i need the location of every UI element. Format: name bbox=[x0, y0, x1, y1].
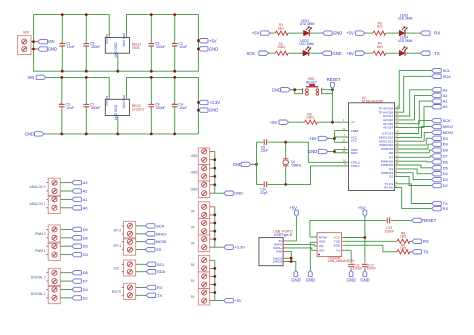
wire C6 vertical bbox=[150, 15, 152, 72]
capacitor C3 bbox=[59, 104, 65, 106]
wire C8 vertical bbox=[150, 77, 152, 133]
svg-text:1kΩ: 1kΩ bbox=[400, 235, 406, 239]
svg-text:+: + bbox=[60, 40, 62, 44]
capacitor C12 100nF bbox=[362, 264, 368, 266]
svg-text:GND GND: GND GND bbox=[114, 104, 118, 120]
svg-text:GND: GND bbox=[25, 132, 34, 137]
pin 7 VCC bbox=[334, 136, 348, 138]
wire C7 vertical bbox=[85, 77, 87, 133]
svg-text:10kΩ: 10kΩ bbox=[277, 45, 285, 49]
svg-text:+5V: +5V bbox=[209, 38, 217, 43]
LED2 LED 3MM bbox=[303, 46, 311, 56]
wire C5 vertical bbox=[85, 15, 87, 72]
svg-text:+: + bbox=[173, 101, 175, 105]
svg-text:D8: D8 bbox=[83, 270, 89, 275]
wire bbox=[365, 32, 373, 34]
svg-text:22pF: 22pF bbox=[261, 149, 269, 153]
capacitor C7 bbox=[83, 104, 89, 106]
svg-text:1kΩ: 1kΩ bbox=[377, 45, 383, 49]
svg-text:GND GND: GND GND bbox=[114, 42, 118, 58]
pin 20 VCC bbox=[334, 141, 348, 143]
wire C3 vertical bbox=[61, 77, 63, 133]
wire to D3 bbox=[60, 254, 72, 256]
svg-text:MOSI: MOSI bbox=[443, 130, 453, 135]
IC USB_MANAGER1 CH330N bbox=[317, 233, 341, 257]
resistor R9 1k bbox=[397, 250, 410, 254]
wire R8 to RX flag bbox=[410, 240, 412, 242]
svg-text:SPI 1: SPI 1 bbox=[113, 244, 121, 248]
wire crystal bottom node bbox=[257, 166, 349, 185]
wire to D6 bbox=[60, 237, 72, 239]
node RESET flag bbox=[412, 218, 422, 222]
wire to MOSI bbox=[136, 241, 146, 243]
capacitor C6 bbox=[148, 44, 154, 46]
svg-text:SS: SS bbox=[156, 247, 162, 252]
svg-text:RX: RX bbox=[434, 31, 440, 36]
switch SW1 RESET bbox=[303, 84, 322, 95]
wire 5V pin to +5V flag bbox=[287, 217, 297, 241]
svg-text:330nF: 330nF bbox=[91, 45, 101, 49]
svg-text:22: 22 bbox=[342, 149, 346, 153]
pin 22 GND bbox=[334, 152, 348, 154]
svg-text:RX D0: RX D0 bbox=[384, 186, 393, 190]
svg-text:1: 1 bbox=[343, 118, 345, 122]
pin 5V stub bbox=[283, 240, 287, 242]
node D5 flag bbox=[72, 244, 82, 248]
pin 11 D5 wire to D5 bbox=[395, 165, 432, 168]
pin 15 D9 wire to D9 bbox=[395, 144, 432, 149]
connector GND-block terminal block bbox=[198, 148, 209, 198]
svg-text:Vin Vin: Vin Vin bbox=[105, 96, 109, 106]
wire bbox=[365, 52, 373, 54]
wire bbox=[309, 32, 322, 34]
wire C12 to ground bbox=[364, 268, 366, 270]
wire VCC bracket bbox=[333, 131, 335, 143]
svg-text:D2: D2 bbox=[83, 295, 89, 300]
node RX flag bbox=[146, 285, 156, 289]
node SCL flag bbox=[146, 262, 156, 266]
svg-text:GND: GND bbox=[233, 162, 242, 167]
connector ANALOG terminal block bbox=[48, 178, 60, 213]
svg-text:A0 D14: A0 D14 bbox=[383, 126, 393, 130]
connector I2C terminal block bbox=[124, 260, 136, 276]
pin 26 A3 D17 wire to A3 bbox=[395, 90, 432, 116]
connector VIN screw terminal bbox=[18, 36, 38, 55]
svg-text:RXD: RXD bbox=[334, 243, 341, 247]
node A0 flag bbox=[72, 206, 82, 210]
svg-text:23: 23 bbox=[395, 124, 399, 128]
svg-text:SCL: SCL bbox=[443, 68, 452, 73]
wire C1 vertical bbox=[61, 15, 63, 72]
svg-text:A2: A2 bbox=[443, 93, 449, 98]
connector USB_PORT1 USB Type B bbox=[259, 238, 283, 266]
svg-text:UD+: UD+ bbox=[319, 248, 325, 252]
svg-text:21: 21 bbox=[342, 127, 346, 131]
svg-text:GND: GND bbox=[347, 278, 356, 283]
wire switch left bbox=[290, 90, 302, 94]
svg-text:MISO: MISO bbox=[443, 124, 453, 129]
svg-text:GND: GND bbox=[291, 278, 300, 283]
connector 5V-block terminal block bbox=[198, 255, 209, 305]
svg-text:+5V: +5V bbox=[346, 51, 354, 56]
svg-text:D7: D7 bbox=[443, 154, 449, 159]
node D3 flag bbox=[72, 252, 82, 256]
svg-text:RESET: RESET bbox=[422, 218, 436, 223]
svg-text:+3.3V: +3.3V bbox=[209, 100, 220, 105]
node +5V flag bbox=[198, 39, 208, 43]
wire reset vertical bbox=[331, 89, 333, 123]
svg-text:GND: GND bbox=[191, 171, 199, 175]
connector PWM terminal block bbox=[48, 225, 60, 260]
svg-text:+: + bbox=[173, 40, 175, 44]
node GND flag bbox=[198, 47, 208, 51]
resistor R6 10k bbox=[304, 120, 317, 124]
ground GND flag (C12) bbox=[363, 270, 367, 276]
svg-text:GND: GND bbox=[351, 151, 359, 155]
ground GND flag (USB shield) bbox=[294, 270, 298, 276]
wire GND/shield bus bbox=[287, 251, 296, 270]
svg-text:A3: A3 bbox=[83, 180, 89, 185]
svg-text:ATMEGA328P: ATMEGA328P bbox=[362, 99, 384, 103]
ground GND flag (CH330N) bbox=[308, 270, 312, 276]
regulator REG2 LF33CV bbox=[105, 99, 129, 115]
node MOSI flag bbox=[145, 240, 155, 244]
svg-text:A0: A0 bbox=[443, 104, 449, 109]
wire to A1 bbox=[60, 198, 72, 200]
wire to RX bbox=[136, 287, 147, 289]
svg-text:RX: RX bbox=[157, 285, 163, 290]
node D8 flag bbox=[432, 148, 442, 152]
wire top rail left segment bbox=[46, 77, 109, 99]
node SCK flag bbox=[432, 118, 442, 122]
wire to MISO bbox=[136, 233, 146, 235]
wire to D5 bbox=[60, 245, 72, 247]
svg-text:D5: D5 bbox=[83, 244, 89, 249]
svg-text:GND: GND bbox=[276, 250, 282, 254]
wire bbox=[405, 52, 420, 54]
svg-text:3V: 3V bbox=[191, 242, 196, 246]
connector DIGITAL terminal block bbox=[48, 268, 60, 303]
node MOSI flag bbox=[432, 130, 442, 134]
pin 21 AREF bbox=[334, 130, 348, 132]
svg-text:5V: 5V bbox=[191, 263, 196, 267]
svg-text:+: + bbox=[60, 101, 62, 105]
node GND flag (LED1) bbox=[323, 31, 333, 35]
svg-text:D4: D4 bbox=[83, 287, 89, 292]
wire TXD to R8 bbox=[342, 240, 397, 242]
regulator REG1 7805 bbox=[105, 38, 129, 54]
svg-text:A3: A3 bbox=[443, 87, 449, 92]
pin 17 D11 wire to MOSI bbox=[395, 132, 432, 141]
svg-text:10uF: 10uF bbox=[66, 106, 74, 110]
svg-text:TX: TX bbox=[423, 249, 429, 254]
capacitor C13 100nF bbox=[387, 218, 389, 224]
svg-text:GND: GND bbox=[209, 108, 218, 113]
svg-text:1kΩ: 1kΩ bbox=[377, 25, 383, 29]
node TX flag bbox=[432, 201, 442, 205]
LED3 LED 3MM bbox=[399, 26, 407, 36]
wire to IC pin 1 bbox=[317, 121, 348, 123]
capacitor C5 bbox=[83, 44, 89, 46]
svg-text:3V: 3V bbox=[191, 226, 196, 230]
node D6 flag bbox=[72, 236, 82, 240]
svg-text:GND: GND bbox=[306, 278, 315, 283]
svg-text:RX: RX bbox=[423, 239, 429, 244]
svg-text:VIN: VIN bbox=[23, 31, 29, 35]
node D9 flag bbox=[432, 142, 442, 146]
wire to SDA bbox=[136, 271, 147, 273]
svg-text:Vin Vin: Vin Vin bbox=[105, 34, 109, 44]
wire C2 vertical bbox=[174, 15, 176, 72]
wire to D2 bbox=[60, 297, 72, 299]
wire GND bracket bbox=[333, 150, 335, 153]
svg-text:Vout Vout: Vout Vout bbox=[122, 33, 126, 47]
ground GND flag (C11) bbox=[349, 270, 353, 276]
node GND flag bbox=[198, 108, 208, 112]
svg-text:SHLD2: SHLD2 bbox=[273, 260, 283, 264]
svg-text:GND: GND bbox=[332, 51, 341, 56]
node D9 flag bbox=[72, 227, 82, 231]
node SS flag bbox=[145, 247, 155, 251]
svg-text:GND: GND bbox=[48, 47, 57, 52]
svg-text:RESET: RESET bbox=[327, 77, 341, 82]
LED4 LED 3MM bbox=[399, 46, 407, 56]
svg-text:LED 3MM: LED 3MM bbox=[398, 39, 413, 43]
wire C11 to ground bbox=[350, 268, 352, 270]
connector SPI terminal block bbox=[124, 221, 136, 255]
svg-text:A1: A1 bbox=[443, 99, 449, 104]
pin 19 D13 wire to SCK bbox=[395, 121, 432, 134]
wire bottom rail bbox=[44, 133, 198, 135]
svg-text:LED 3MM: LED 3MM bbox=[398, 17, 413, 21]
LED1 LED 3MM bbox=[304, 26, 312, 36]
node SCK flag bbox=[145, 224, 155, 228]
node A0 flag bbox=[432, 105, 442, 109]
svg-text:SDA: SDA bbox=[157, 269, 166, 274]
node RX flag (LED3) bbox=[420, 31, 430, 35]
svg-text:A1: A1 bbox=[83, 197, 89, 202]
wire to SCL bbox=[136, 263, 147, 265]
svg-text:330nF: 330nF bbox=[156, 45, 166, 49]
pin 13 D7 wire to D7 bbox=[395, 156, 432, 157]
wire RTS# to reset line bbox=[310, 220, 386, 237]
pin 14 D8 wire to D8 bbox=[395, 150, 432, 153]
svg-text:SCL: SCL bbox=[157, 262, 166, 267]
wire top rail right segment bbox=[127, 77, 199, 133]
wire RXD to R9 bbox=[342, 245, 397, 252]
svg-text:SS: SS bbox=[443, 136, 449, 141]
node SDA flag bbox=[146, 270, 156, 274]
node A2 flag bbox=[432, 93, 442, 97]
node GND flag (LED2) bbox=[322, 51, 332, 55]
svg-text:GND: GND bbox=[209, 47, 218, 52]
wire to A0 bbox=[60, 207, 72, 209]
svg-text:D9: D9 bbox=[83, 227, 89, 232]
wire C13 to RESET flag bbox=[391, 219, 412, 221]
pin 3 TX D1 wire to TX bbox=[395, 184, 432, 204]
pin 23 A0 D14 wire to A0 bbox=[395, 107, 432, 128]
svg-text:D3: D3 bbox=[83, 252, 89, 257]
svg-text:PWM 2: PWM 2 bbox=[35, 232, 46, 236]
svg-text:D8: D8 bbox=[443, 148, 449, 153]
svg-text:16MHz: 16MHz bbox=[291, 163, 302, 167]
svg-text:10uF: 10uF bbox=[179, 106, 187, 110]
svg-text:DIGITAL 2: DIGITAL 2 bbox=[31, 275, 46, 279]
svg-text:100nF: 100nF bbox=[353, 267, 362, 271]
pin GND stub bbox=[283, 250, 287, 252]
wire bbox=[269, 52, 276, 54]
wire DATA- to UD- bbox=[287, 244, 317, 246]
node A1 flag bbox=[432, 99, 442, 103]
svg-text:SPI 2: SPI 2 bbox=[113, 228, 121, 232]
node GND flag bbox=[224, 191, 234, 195]
svg-text:SCK: SCK bbox=[156, 223, 165, 228]
svg-text:D3: D3 bbox=[443, 177, 449, 182]
svg-text:A0: A0 bbox=[83, 205, 89, 210]
wire to D4 bbox=[60, 289, 72, 291]
resistor R3 1k bbox=[373, 31, 386, 35]
svg-text:MISO: MISO bbox=[156, 231, 166, 236]
svg-text:+5V: +5V bbox=[234, 298, 242, 303]
svg-text:D9: D9 bbox=[443, 142, 449, 147]
wire to A3 bbox=[60, 182, 72, 184]
node D7 flag bbox=[432, 154, 442, 158]
node +5V flag bbox=[224, 298, 234, 302]
node VIN flag bbox=[38, 39, 48, 43]
connector RX/TX terminal block bbox=[124, 283, 136, 299]
pin SHLD2 stub bbox=[283, 261, 287, 263]
pin 16 D10 wire to SS bbox=[395, 138, 432, 145]
node D4 flag bbox=[72, 287, 82, 291]
wire REG2 ground stub bbox=[117, 116, 119, 134]
svg-text:GND: GND bbox=[333, 31, 342, 36]
svg-text:5V: 5V bbox=[191, 295, 196, 299]
wire bbox=[309, 52, 322, 54]
wire bbox=[405, 32, 420, 34]
svg-text:1kΩ: 1kΩ bbox=[400, 247, 406, 251]
svg-text:RX: RX bbox=[443, 206, 449, 211]
resistor R4 1k bbox=[373, 51, 386, 55]
svg-text:LF33CV: LF33CV bbox=[132, 108, 145, 112]
wire bbox=[386, 52, 399, 54]
svg-text:+5V: +5V bbox=[252, 31, 260, 36]
node +3.3V flag bbox=[198, 100, 208, 104]
node D8 flag bbox=[72, 271, 82, 275]
wire REG1 ground stub bbox=[117, 53, 119, 71]
node RX flag bbox=[432, 206, 442, 210]
resistor R8 1k bbox=[397, 239, 410, 243]
wire bottom rail bbox=[34, 70, 199, 72]
connector 3V-block terminal block bbox=[198, 202, 209, 252]
junction dots VIN terminal bbox=[32, 40, 35, 43]
node SCL flag bbox=[432, 68, 442, 72]
svg-text:D2: D2 bbox=[443, 183, 449, 188]
svg-text:XTAL1: XTAL1 bbox=[351, 164, 360, 168]
svg-text:+3.3V: +3.3V bbox=[234, 245, 245, 250]
node A1 flag bbox=[72, 197, 82, 201]
svg-text:nc: nc bbox=[352, 120, 356, 124]
wire bbox=[288, 52, 303, 54]
node TX flag bbox=[146, 293, 156, 297]
node +3.3V flag bbox=[224, 245, 234, 249]
node A3 flag bbox=[72, 180, 82, 184]
capacitor C4 bbox=[172, 104, 178, 106]
wire to D9 bbox=[60, 228, 72, 230]
svg-text:UD-: UD- bbox=[319, 244, 324, 248]
wire top rail right segment bbox=[127, 15, 199, 72]
wire to D7 bbox=[60, 280, 72, 282]
resistor R2 10k bbox=[275, 51, 288, 55]
node D7 flag bbox=[72, 279, 82, 283]
capacitor C11 100nF bbox=[348, 264, 354, 266]
wire to SCK bbox=[136, 225, 146, 227]
wire bbox=[288, 32, 303, 34]
pin 2 RX D0 wire to RX bbox=[395, 188, 432, 209]
wire switch right bbox=[322, 90, 333, 94]
svg-text:10uF: 10uF bbox=[67, 45, 75, 49]
svg-text:VCC: VCC bbox=[351, 139, 358, 143]
node GND flag bbox=[38, 47, 48, 51]
capacitor C10 22pF bbox=[264, 182, 266, 188]
pin DATA- stub bbox=[283, 243, 287, 245]
svg-text:V3: V3 bbox=[336, 248, 340, 252]
resistor R1 1k bbox=[275, 31, 288, 35]
svg-text:PWM 1: PWM 1 bbox=[35, 249, 46, 253]
pin 24 A1 D15 wire to A1 bbox=[395, 101, 432, 124]
svg-text:14: 14 bbox=[395, 149, 399, 153]
wire DATA+ to UD+ bbox=[287, 248, 317, 250]
node D3 flag bbox=[432, 177, 442, 181]
node A3 flag bbox=[432, 88, 442, 92]
wire bus bbox=[215, 151, 224, 193]
svg-text:RESET: RESET bbox=[306, 80, 317, 84]
op-amp U2 box bbox=[349, 103, 395, 191]
svg-text:330nF: 330nF bbox=[91, 106, 101, 110]
pin 27 A4 D18 wire to SDA bbox=[395, 76, 432, 112]
node MISO flag bbox=[145, 232, 155, 236]
svg-text:SDA: SDA bbox=[443, 74, 452, 79]
pin 28 A5 D19 wire to SCL bbox=[395, 71, 432, 109]
pin 18 D12 wire to MISO bbox=[395, 127, 432, 138]
pin 12 D6 wire to D6 bbox=[395, 160, 432, 163]
svg-text:+5V: +5V bbox=[309, 136, 317, 141]
wire gnd to node bbox=[251, 163, 257, 165]
svg-text:D6: D6 bbox=[443, 159, 449, 164]
svg-text:D7: D7 bbox=[83, 279, 89, 284]
svg-text:+5V: +5V bbox=[270, 120, 278, 125]
node TX flag (serial) bbox=[412, 250, 422, 254]
svg-text:+5V: +5V bbox=[346, 31, 354, 36]
capacitor C8 bbox=[148, 104, 154, 106]
pin SHLD1 stub bbox=[283, 257, 287, 259]
svg-text:TX: TX bbox=[157, 293, 162, 298]
svg-text:GND: GND bbox=[308, 149, 317, 154]
node D2 flag bbox=[72, 296, 82, 300]
wire to A2 bbox=[60, 190, 72, 192]
wire V3 to C11 bbox=[342, 250, 352, 263]
wire bbox=[270, 32, 275, 34]
svg-text:LED 3MM: LED 3MM bbox=[299, 42, 314, 46]
wire to SS bbox=[136, 249, 146, 251]
capacitor C2 bbox=[172, 44, 178, 46]
wire R9 to TX flag bbox=[410, 251, 412, 253]
svg-text:ANALOG 2: ANALOG 2 bbox=[30, 185, 46, 189]
svg-text:Vout Vout: Vout Vout bbox=[122, 95, 126, 109]
svg-text:SCK: SCK bbox=[246, 51, 255, 56]
svg-text:10uF: 10uF bbox=[179, 45, 187, 49]
wire VCC node bbox=[342, 217, 365, 264]
svg-text:D4: D4 bbox=[443, 171, 449, 176]
